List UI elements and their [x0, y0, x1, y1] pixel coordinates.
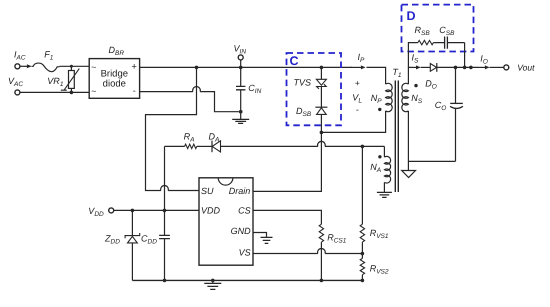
- svg-text:VIN: VIN: [234, 44, 247, 56]
- wire VDD-branch vertical: [164, 146, 166, 210]
- svg-text:CS: CS: [238, 206, 251, 216]
- ground at GND pin: [261, 237, 273, 243]
- svg-text:IP: IP: [358, 52, 366, 64]
- dashed box C: [287, 53, 342, 125]
- junction NP bottom / clamp: [320, 131, 324, 135]
- wire NS bottom down: [407, 111, 409, 171]
- wire NS top to DO: [408, 67, 411, 84]
- svg-text:TVS: TVS: [294, 78, 312, 88]
- wire aux node down to RVS1: [361, 146, 363, 224]
- core T1: [395, 81, 398, 193]
- svg-text:VDD: VDD: [88, 206, 104, 218]
- wire GND pin: [253, 233, 266, 238]
- resistor R_VS2: [360, 258, 364, 274]
- svg-text:CSB: CSB: [439, 25, 455, 37]
- junction V_IN: [239, 66, 243, 70]
- junction VR1 top: [70, 65, 73, 68]
- svg-text:-: -: [356, 105, 359, 115]
- svg-text:~: ~: [91, 86, 96, 96]
- diode D_A: [197, 145, 212, 147]
- junction DC+ / startup branch: [195, 66, 199, 70]
- TVS transient suppressor: [320, 67, 322, 79]
- fuse F1: [32, 63, 60, 72]
- svg-text:RVS1: RVS1: [370, 228, 389, 240]
- svg-text:DA: DA: [209, 132, 220, 144]
- wire secondary return: [408, 160, 455, 162]
- winding NP: [386, 83, 393, 111]
- wire DO to Vout: [437, 66, 479, 68]
- svg-text:NA: NA: [370, 162, 381, 174]
- svg-text:CDD: CDD: [141, 233, 157, 245]
- current arrow I_S: [411, 66, 420, 68]
- svg-text:DO: DO: [425, 78, 437, 90]
- polarity dot NA: [378, 155, 381, 158]
- svg-text:VS: VS: [239, 247, 251, 257]
- junction CDD bottom: [163, 279, 167, 283]
- svg-text:IS: IS: [412, 52, 420, 64]
- svg-text:VR1: VR1: [47, 76, 64, 88]
- svg-text:CIN: CIN: [248, 83, 261, 95]
- svg-text:ZDD: ZDD: [104, 233, 120, 245]
- junction VS divider: [361, 252, 365, 256]
- svg-text:IO: IO: [480, 53, 488, 65]
- svg-text:DBR: DBR: [109, 45, 125, 57]
- svg-text:Drain: Drain: [229, 186, 251, 196]
- node V_DD terminal: [109, 208, 114, 213]
- svg-text:C: C: [290, 54, 299, 68]
- wire VDD: [114, 209, 199, 211]
- capacitor C_SB: [433, 42, 464, 44]
- svg-text:VL: VL: [352, 93, 362, 105]
- svg-text:RCS1: RCS1: [327, 233, 347, 245]
- svg-text:RVS2: RVS2: [370, 263, 389, 275]
- svg-text:DSB: DSB: [296, 106, 312, 118]
- svg-text:T1: T1: [392, 67, 402, 79]
- wire clamp down to drain: [253, 132, 321, 191]
- wire snubber right leg: [464, 43, 466, 68]
- junction rail ground: [211, 279, 215, 283]
- current arrow I_AC: [20, 65, 30, 67]
- secondary ground triangle: [402, 171, 416, 178]
- diode D_O: [430, 64, 436, 72]
- node IAC input terminal: [15, 64, 20, 69]
- junction RCS1 bottom: [320, 279, 324, 283]
- varistor VR1: [70, 66, 72, 92]
- wire DA to aux node with hop over drain wire: [221, 141, 385, 146]
- ground at NA: [383, 182, 385, 192]
- svg-text:+: +: [131, 62, 137, 73]
- svg-text:diode: diode: [103, 79, 126, 90]
- svg-text:VDD: VDD: [201, 206, 221, 216]
- dashed box D: [402, 5, 474, 52]
- current arrow I_P: [351, 66, 365, 68]
- polarity dot NS: [414, 84, 417, 87]
- junction CO top: [454, 66, 458, 70]
- op-amp U1 controller IC box: [199, 178, 253, 265]
- wire NP bottom to clamp: [321, 111, 385, 132]
- svg-text:RA: RA: [184, 132, 195, 144]
- svg-text:IAC: IAC: [14, 50, 26, 62]
- svg-text:GND: GND: [231, 226, 252, 236]
- svg-text:D: D: [407, 9, 416, 23]
- junction RVS2 bottom: [361, 279, 365, 283]
- polarity dot NP: [378, 108, 381, 111]
- svg-text:VAC: VAC: [8, 76, 23, 88]
- junction output: [469, 66, 473, 70]
- node VAC input terminal: [15, 90, 20, 95]
- junction aux / RVS1: [361, 145, 365, 149]
- current arrow I_O: [479, 66, 489, 68]
- junction ZDD top: [131, 209, 135, 213]
- ground at C_IN: [240, 112, 242, 120]
- svg-text:Vout: Vout: [517, 63, 535, 73]
- wire VAC to bridge: [20, 91, 89, 93]
- junction TVS top: [320, 66, 324, 70]
- zener Z_DD: [131, 210, 133, 235]
- junction C_IN bottom: [239, 110, 243, 114]
- junction CDD top: [163, 209, 167, 213]
- capacitor C_O: [455, 67, 457, 161]
- resistor R_VS1: [360, 224, 364, 242]
- junction snubber D return: [463, 66, 467, 70]
- svg-text:~: ~: [91, 62, 96, 72]
- wire DC+ bus: [140, 66, 352, 68]
- wire DC- from bridge with hop over startup wire: [140, 87, 239, 112]
- capacitor C_DD: [164, 210, 166, 280]
- winding NS: [402, 83, 409, 111]
- capacitor C_IN: [240, 67, 242, 111]
- wire CS pin to RCS1: [253, 210, 321, 224]
- junction VR1 bottom: [70, 91, 74, 95]
- wire fuse to bridge: [60, 65, 90, 67]
- winding NA: [383, 146, 385, 157]
- svg-text:NP: NP: [371, 93, 383, 105]
- resistor R_A: [165, 145, 185, 147]
- ground at rail: [212, 280, 214, 283]
- diode D_SB: [315, 106, 327, 108]
- svg-text:SU: SU: [201, 186, 214, 196]
- wire startup: DC+ down to SU pin: [146, 67, 200, 190]
- svg-text:NS: NS: [411, 93, 423, 105]
- svg-text:F1: F1: [44, 50, 54, 62]
- node V_IN terminal: [238, 55, 243, 60]
- svg-text:CO: CO: [435, 100, 447, 112]
- bridge rectifier D_BR box: [89, 59, 139, 99]
- wire bus to NP top: [367, 67, 386, 84]
- svg-text:-: -: [133, 85, 136, 95]
- wire ground rail: [132, 279, 362, 281]
- wire VS pin to divider with hop over RCS1: [253, 248, 362, 253]
- node Vout terminal: [504, 65, 509, 70]
- resistor R_CS1: [319, 224, 323, 242]
- svg-text:RSB: RSB: [415, 25, 431, 37]
- wire snubber left leg: [408, 43, 418, 68]
- resistor R_SB: [418, 40, 434, 44]
- svg-text:+: +: [355, 78, 360, 88]
